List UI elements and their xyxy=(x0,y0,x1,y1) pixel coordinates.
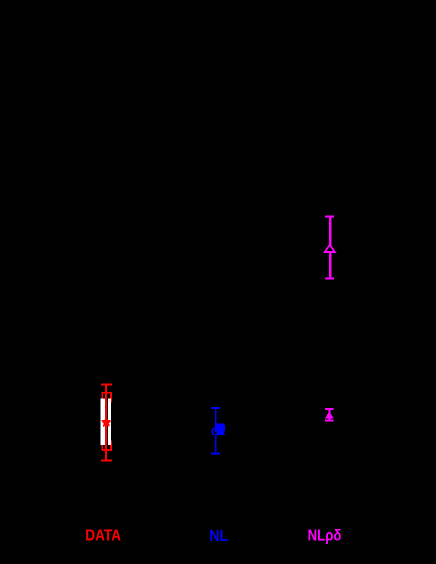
svg-text:NLρδ: NLρδ xyxy=(308,528,342,545)
blue open circle marker xyxy=(212,428,219,435)
blue error bar upper line segment xyxy=(215,408,217,424)
magenta filled triangle marker xyxy=(325,412,334,419)
NL point: blue error bar with filled square + open circle xyxy=(211,407,225,454)
magenta small error bar bottom cap xyxy=(325,420,333,422)
open square marker (upper) xyxy=(102,393,111,402)
blue error bar top cap xyxy=(211,407,220,409)
red star marker xyxy=(101,417,112,427)
blue error bar bottom cap xyxy=(211,452,220,454)
red error bar vertical line xyxy=(105,384,107,461)
NL-rho-delta upper point: magenta open triangle with error bar xyxy=(325,215,335,279)
magenta error bar top cap xyxy=(325,215,334,217)
blue filled square markers union xyxy=(215,423,225,435)
DATA point: red error bar with white systematic box xyxy=(101,383,112,461)
svg-text:NL: NL xyxy=(209,528,228,545)
red error bar bottom cap xyxy=(101,460,112,462)
magenta error bar vertical line xyxy=(329,216,331,279)
white systematic-error box xyxy=(101,399,111,445)
magenta open triangle marker xyxy=(325,245,335,252)
magenta small error bar top cap xyxy=(325,408,333,410)
NL-rho-delta lower point: magenta filled triangle with error bar xyxy=(325,408,334,422)
svg-text:DATA: DATA xyxy=(85,527,121,544)
magenta small error bar vertical line xyxy=(328,408,330,421)
red error bar top cap xyxy=(101,383,112,385)
blue error bar lower line segment xyxy=(215,436,217,454)
black line over box xyxy=(107,399,108,445)
magenta error bar bottom cap xyxy=(325,277,334,279)
open square marker (lower) xyxy=(102,441,111,450)
